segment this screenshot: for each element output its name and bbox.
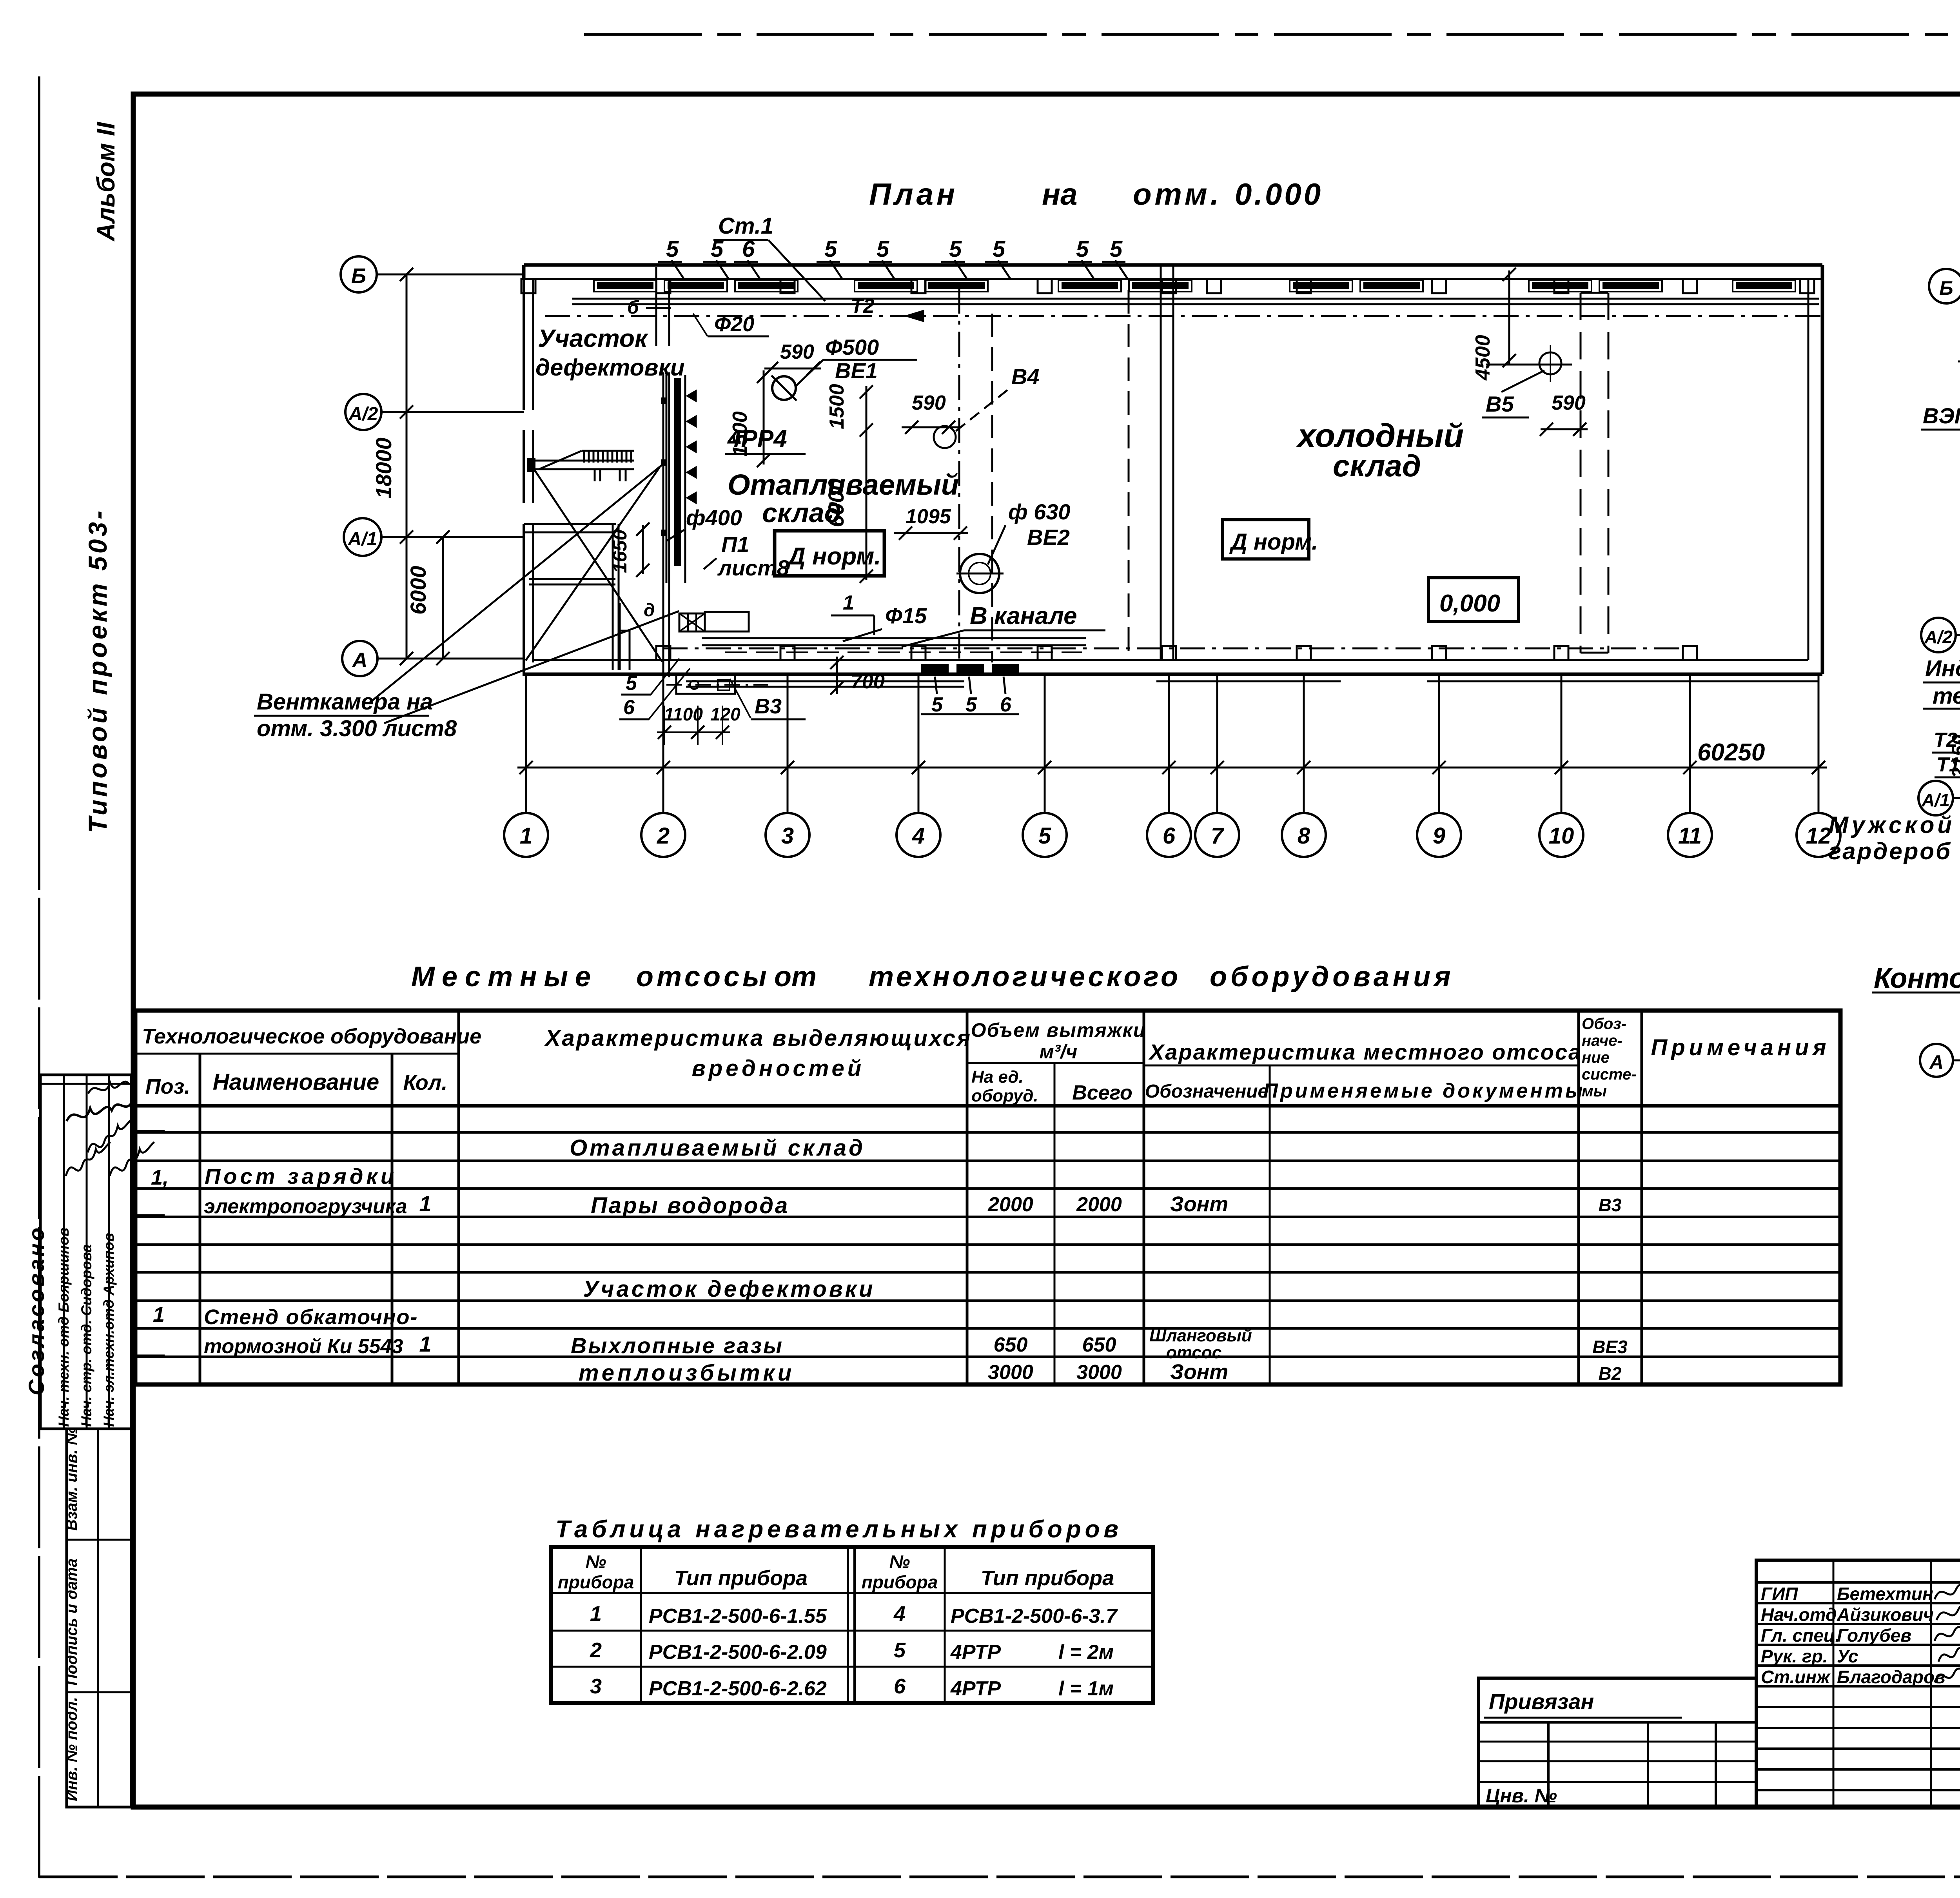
svg-text:Взам. инв. №: Взам. инв. №	[63, 1427, 80, 1531]
svg-text:Выхлопные газы: Выхлопные газы	[571, 1333, 784, 1358]
svg-text:В2: В2	[1599, 1363, 1622, 1384]
поз column dashes	[137, 1130, 165, 1132]
monorail beam with stairs	[530, 460, 634, 462]
svg-text:5: 5	[993, 236, 1005, 262]
left rooms: inner divider	[529, 578, 615, 580]
left vertical dimension 6000	[442, 537, 444, 659]
sign box Д норм. (heated)	[775, 531, 884, 576]
svg-text:Венткамера на: Венткамера на	[257, 689, 433, 715]
svg-text:5: 5	[666, 236, 679, 262]
stamp signatures	[66, 1142, 111, 1176]
svg-text:Альбом II: Альбом II	[92, 122, 120, 242]
svg-text:1500: 1500	[826, 384, 848, 429]
svg-text:1: 1	[520, 823, 532, 849]
table 2 grid	[551, 1547, 1153, 1703]
svg-text:ВЕ2: ВЕ2	[1027, 525, 1070, 550]
radiators along top wall	[594, 280, 657, 292]
svg-text:теплоизбытки: теплоизбытки	[579, 1360, 795, 1386]
svg-text:Кол.: Кол.	[403, 1071, 448, 1094]
svg-text:2150: 2150	[1948, 735, 1960, 778]
svg-text:650: 650	[994, 1334, 1028, 1356]
svg-text:А/2: А/2	[348, 404, 378, 425]
bottom dimension line 60250	[517, 767, 1827, 769]
svg-text:План: План	[869, 177, 958, 211]
svg-text:Нач. эл.техн.отд Архипов: Нач. эл.техн.отд Архипов	[101, 1233, 117, 1427]
svg-text:4РР4: 4РР4	[727, 425, 787, 452]
svg-text:5: 5	[965, 693, 977, 716]
svg-text:В5: В5	[1486, 392, 1514, 416]
svg-text:5: 5	[626, 672, 637, 695]
svg-text:2000: 2000	[1076, 1193, 1122, 1216]
svg-text:технологического: технологического	[869, 961, 1181, 993]
approval stamp block Согласовано	[40, 1075, 131, 1429]
svg-text:Айзикович: Айзикович	[1837, 1604, 1934, 1625]
svg-text:Голубев: Голубев	[1837, 1625, 1911, 1646]
svg-text:4: 4	[893, 1602, 906, 1626]
svg-text:Б: Б	[351, 264, 366, 288]
svg-text:оборудования: оборудования	[1210, 961, 1454, 993]
svg-text:4500: 4500	[1472, 335, 1494, 381]
svg-text:4: 4	[912, 823, 925, 849]
svg-text:Согласовано: Согласовано	[24, 1225, 49, 1395]
heating main T2 dash-dot	[545, 315, 1823, 317]
svg-text:6: 6	[1163, 823, 1176, 849]
svg-text:Ст.инж: Ст.инж	[1761, 1667, 1831, 1687]
row axis lines	[377, 274, 524, 276]
svg-text:Обозначение: Обозначение	[1145, 1081, 1268, 1102]
svg-text:В3: В3	[1599, 1195, 1622, 1215]
signature scribbles	[1935, 1569, 1960, 1599]
svg-text:Поз.: Поз.	[145, 1075, 190, 1098]
svg-text:оборуд.: оборуд.	[971, 1086, 1038, 1105]
svg-text:ВЕ1: ВЕ1	[835, 358, 878, 383]
svg-text:ние: ние	[1582, 1049, 1610, 1066]
svg-text:№: №	[889, 1551, 910, 1572]
svg-text:5: 5	[1110, 236, 1123, 262]
B3 bearing box with X	[679, 613, 705, 631]
svg-text:Характеристика местного отсоса: Характеристика местного отсоса	[1148, 1040, 1582, 1064]
signature table	[1756, 1560, 1960, 1807]
bottom wall sub strips	[686, 680, 964, 682]
svg-text:А: А	[1929, 1051, 1944, 1073]
svg-text:отсос: отсос	[1166, 1343, 1221, 1362]
svg-text:1,: 1,	[151, 1166, 169, 1189]
inventory column block	[67, 1429, 131, 1807]
svg-text:12: 12	[1806, 823, 1831, 849]
svg-text:Характеристика выделяющихся: Характеристика выделяющихся	[544, 1025, 972, 1051]
svg-text:590: 590	[780, 341, 814, 363]
svg-text:А/2: А/2	[1924, 627, 1953, 647]
svg-text:Б: Б	[1939, 277, 1953, 299]
svg-text:Привязан: Привязан	[1489, 1689, 1594, 1714]
svg-text:Благодаров: Благодаров	[1837, 1667, 1945, 1687]
left rooms: wall stubs lower right	[619, 603, 621, 670]
svg-text:отм.: отм.	[1133, 177, 1222, 211]
svg-text:Отапливаемый склад: Отапливаемый склад	[570, 1135, 865, 1161]
svg-text:б: б	[627, 297, 639, 318]
svg-text:Индивидуальный: Индивидуальный	[1925, 656, 1960, 681]
svg-text:Инв. № подл.: Инв. № подл.	[63, 1697, 80, 1801]
svg-text:наче-: наче-	[1582, 1032, 1622, 1049]
left rooms: right wall of lower block	[612, 524, 614, 670]
svg-text:ГИП: ГИП	[1761, 1584, 1798, 1604]
bottom radiators with labels 5 5 6	[921, 664, 949, 673]
svg-text:Применяемые документы: Применяемые документы	[1263, 1080, 1585, 1102]
svg-text:Таблица нагревательных приб: Таблица нагревательных приборов	[555, 1516, 1122, 1543]
vertical duct dashed in cold shed	[1580, 293, 1582, 653]
svg-text:гардероб: гардероб	[1829, 838, 1952, 864]
svg-text:8: 8	[1298, 823, 1310, 849]
svg-text:Д норм.: Д норм.	[1229, 529, 1318, 555]
svg-text:д: д	[644, 600, 655, 620]
svg-text:Ст.1: Ст.1	[718, 213, 773, 239]
svg-text:Нач. техн. отд Бояршинов: Нач. техн. отд Бояршинов	[56, 1228, 72, 1427]
dim 4500 vertical	[1508, 270, 1510, 365]
sheet trim line left	[38, 76, 40, 890]
svg-text:В3: В3	[755, 695, 782, 718]
svg-text:5: 5	[1076, 236, 1089, 262]
sign box Д норм. (cold)	[1223, 520, 1309, 559]
svg-text:6: 6	[894, 1675, 906, 1698]
left rooms: outer left wall segments	[523, 267, 525, 410]
svg-text:Тип прибора: Тип прибора	[674, 1566, 808, 1590]
svg-text:Ф20: Ф20	[714, 312, 754, 336]
svg-text:590: 590	[912, 392, 946, 414]
svg-text:6: 6	[1000, 693, 1012, 716]
svg-text:Объем вытяжки: Объем вытяжки	[971, 1019, 1146, 1041]
svg-text:l = 2м: l = 2м	[1058, 1641, 1114, 1664]
svg-text:Зонт: Зонт	[1170, 1360, 1228, 1384]
svg-text:ф 630: ф 630	[1008, 499, 1071, 524]
svg-text:отсосы: отсосы	[636, 961, 770, 993]
riser П1 black duct	[674, 378, 681, 566]
svg-text:6: 6	[623, 696, 635, 719]
svg-text:6000: 6000	[824, 478, 848, 527]
svg-text:4РТР: 4РТР	[950, 1677, 1001, 1700]
svg-text:ВЕ3: ВЕ3	[1592, 1337, 1628, 1357]
svg-text:l = 1м: l = 1м	[1058, 1677, 1114, 1700]
channel pipe В канале	[702, 637, 1086, 639]
dim 1650 vertical	[642, 525, 644, 574]
svg-text:Рук. гр.: Рук. гр.	[1761, 1646, 1828, 1666]
svg-text:9: 9	[1433, 823, 1445, 849]
sheet trim line bottom	[39, 1876, 1960, 1878]
svg-text:систе-: систе-	[1582, 1066, 1637, 1083]
main building outer walls	[524, 263, 1822, 267]
svg-text:Стенд обкаточно-: Стенд обкаточно-	[204, 1305, 418, 1329]
svg-text:Местные: Местные	[411, 961, 598, 993]
svg-text:м³/ч: м³/ч	[1040, 1041, 1078, 1063]
svg-text:В4: В4	[1011, 364, 1040, 389]
right plan axes circles	[1929, 269, 1960, 303]
B3 fan rect	[705, 612, 749, 631]
vent ВЕ1 circle	[772, 376, 796, 400]
svg-text:ф400: ф400	[686, 505, 742, 530]
svg-text:Типовой проект 503-: Типовой проект 503-	[83, 508, 112, 833]
svg-text:дефектовки: дефектовки	[535, 354, 685, 381]
svg-text:отм. 3.300 лист8: отм. 3.300 лист8	[257, 716, 457, 741]
svg-text:электропогрузчика: электропогрузчика	[204, 1195, 407, 1218]
svg-text:5: 5	[877, 236, 889, 262]
svg-text:Нач. стр. отд. Сидорова: Нач. стр. отд. Сидорова	[78, 1244, 94, 1427]
svg-text:Цнв. №: Цнв. №	[1486, 1785, 1557, 1807]
svg-text:0,000: 0,000	[1439, 590, 1500, 617]
svg-text:1: 1	[419, 1191, 431, 1216]
svg-text:РСВ1-2-500-6-3.7: РСВ1-2-500-6-3.7	[951, 1605, 1118, 1628]
dashed riser near axis 4	[958, 289, 960, 674]
vent ВЕ2 double circle	[960, 554, 999, 593]
svg-text:Участок дефектовки: Участок дефектовки	[583, 1276, 875, 1302]
svg-text:П1: П1	[721, 532, 749, 557]
svg-text:Участок: Участок	[538, 324, 649, 352]
svg-text:11: 11	[1678, 823, 1702, 849]
svg-text:1095: 1095	[906, 505, 951, 528]
svg-text:Наименование: Наименование	[213, 1069, 379, 1095]
svg-text:5: 5	[824, 236, 837, 262]
svg-text:мы: мы	[1582, 1083, 1607, 1100]
svg-text:Всего: Всего	[1072, 1081, 1132, 1104]
svg-text:ВЭПи 13: ВЭПи 13	[1923, 403, 1960, 428]
svg-text:3: 3	[590, 1675, 602, 1698]
svg-text:А: А	[352, 648, 368, 672]
svg-text:РСВ1-2-500-6-2.09: РСВ1-2-500-6-2.09	[649, 1641, 827, 1664]
left vertical dimension 18000	[406, 274, 408, 659]
svg-text:вредностей: вредностей	[692, 1056, 865, 1081]
svg-text:6000: 6000	[406, 566, 430, 615]
svg-text:2: 2	[590, 1639, 602, 1662]
svg-text:На ед.: На ед.	[971, 1067, 1024, 1087]
svg-text:Тип прибора: Тип прибора	[981, 1566, 1114, 1590]
svg-text:60250: 60250	[1697, 739, 1765, 766]
svg-text:Пары водорода: Пары водорода	[591, 1193, 789, 1218]
dim 1500 vertical	[763, 370, 765, 465]
svg-text:1: 1	[843, 592, 854, 614]
svg-text:3000: 3000	[1076, 1361, 1122, 1384]
heating main bottom dash-dot	[662, 648, 1686, 650]
sign box 0,000	[1428, 578, 1519, 622]
svg-text:0.000: 0.000	[1235, 177, 1323, 211]
svg-text:Шланговый: Шланговый	[1149, 1326, 1252, 1345]
vent B4 circle	[934, 426, 956, 448]
B3 protruding box below wall	[676, 673, 735, 694]
dim 6000 vertical inner	[866, 386, 867, 580]
dashed riser x2879	[1128, 290, 1130, 651]
wall between sheds	[1160, 265, 1162, 660]
svg-text:от: от	[774, 961, 817, 993]
svg-text:18000: 18000	[371, 437, 396, 499]
svg-text:Обоз-: Обоз-	[1582, 1015, 1626, 1032]
svg-text:Контора: Контора	[1874, 963, 1960, 994]
svg-text:10: 10	[1549, 823, 1574, 849]
room cross X	[531, 465, 662, 662]
svg-text:Гл. спец.: Гл. спец.	[1761, 1625, 1840, 1646]
svg-text:3000: 3000	[988, 1361, 1033, 1384]
svg-text:прибора: прибора	[558, 1572, 634, 1592]
svg-text:120: 120	[710, 704, 740, 724]
svg-text:1: 1	[419, 1332, 431, 1356]
svg-text:прибора: прибора	[862, 1572, 938, 1592]
svg-text:тормозной Ки 5543: тормозной Ки 5543	[204, 1335, 403, 1358]
svg-text:Ф15: Ф15	[885, 603, 927, 628]
svg-text:Ф500: Ф500	[825, 335, 879, 359]
svg-text:Примечания: Примечания	[1651, 1035, 1830, 1060]
wall columns on top wall	[521, 279, 535, 293]
left rooms: lower block top wall	[524, 523, 616, 525]
svg-text:650: 650	[1082, 1334, 1116, 1356]
svg-text:Технологическое оборудование: Технологическое оборудование	[142, 1025, 481, 1048]
svg-text:5: 5	[949, 236, 962, 262]
svg-text:на: на	[1042, 177, 1078, 211]
svg-text:1: 1	[153, 1303, 165, 1326]
svg-text:А/1: А/1	[1921, 790, 1950, 810]
wall columns on bottom wall	[656, 646, 670, 660]
wall between rooms and shed	[662, 372, 664, 677]
table data row lines	[135, 1131, 1840, 1134]
heating pipes T1 below top wall	[572, 298, 1819, 300]
svg-text:Нач.отд.: Нач.отд.	[1761, 1604, 1842, 1625]
svg-text:Ус: Ус	[1837, 1646, 1858, 1666]
axis lines to bottom circles	[525, 675, 527, 813]
vent В5 circle	[1539, 352, 1561, 374]
svg-text:5: 5	[1038, 823, 1051, 849]
svg-text:склад: склад	[1333, 448, 1421, 483]
svg-text:Бетехтин: Бетехтин	[1837, 1584, 1933, 1604]
svg-text:3: 3	[781, 823, 794, 849]
svg-text:5: 5	[931, 693, 943, 716]
svg-text:4РТР: 4РТР	[950, 1641, 1001, 1664]
svg-text:1: 1	[590, 1602, 602, 1626]
axis circles 1-12	[504, 813, 548, 857]
svg-text:2000: 2000	[987, 1193, 1033, 1216]
svg-text:№: №	[586, 1551, 606, 1572]
table Местные отсосы grid	[135, 1011, 1840, 1384]
sheet trim line top	[584, 33, 1960, 36]
vent chamber leader diagonals	[368, 465, 662, 704]
svg-text:тепловой пункт: тепловой пункт	[1933, 683, 1960, 709]
svg-text:7: 7	[1211, 823, 1225, 849]
row axis circles Б А/2 А/1 А	[341, 256, 377, 292]
svg-text:2: 2	[657, 823, 670, 849]
link table Привязан	[1479, 1678, 1756, 1807]
svg-text:Пост зарядки: Пост зарядки	[205, 1164, 397, 1189]
svg-text:Подпись и дата: Подпись и дата	[63, 1559, 80, 1686]
table header lines	[135, 1053, 459, 1055]
svg-text:А/1: А/1	[348, 529, 377, 550]
svg-text:Т2: Т2	[851, 295, 875, 318]
svg-text:В канале: В канале	[970, 602, 1077, 630]
svg-text:РСВ1-2-500-6-2.62: РСВ1-2-500-6-2.62	[649, 1677, 827, 1700]
svg-text:5: 5	[894, 1639, 906, 1662]
svg-text:РСВ1-2-500-6-1.55: РСВ1-2-500-6-1.55	[649, 1605, 827, 1628]
svg-text:Зонт: Зонт	[1170, 1192, 1228, 1216]
